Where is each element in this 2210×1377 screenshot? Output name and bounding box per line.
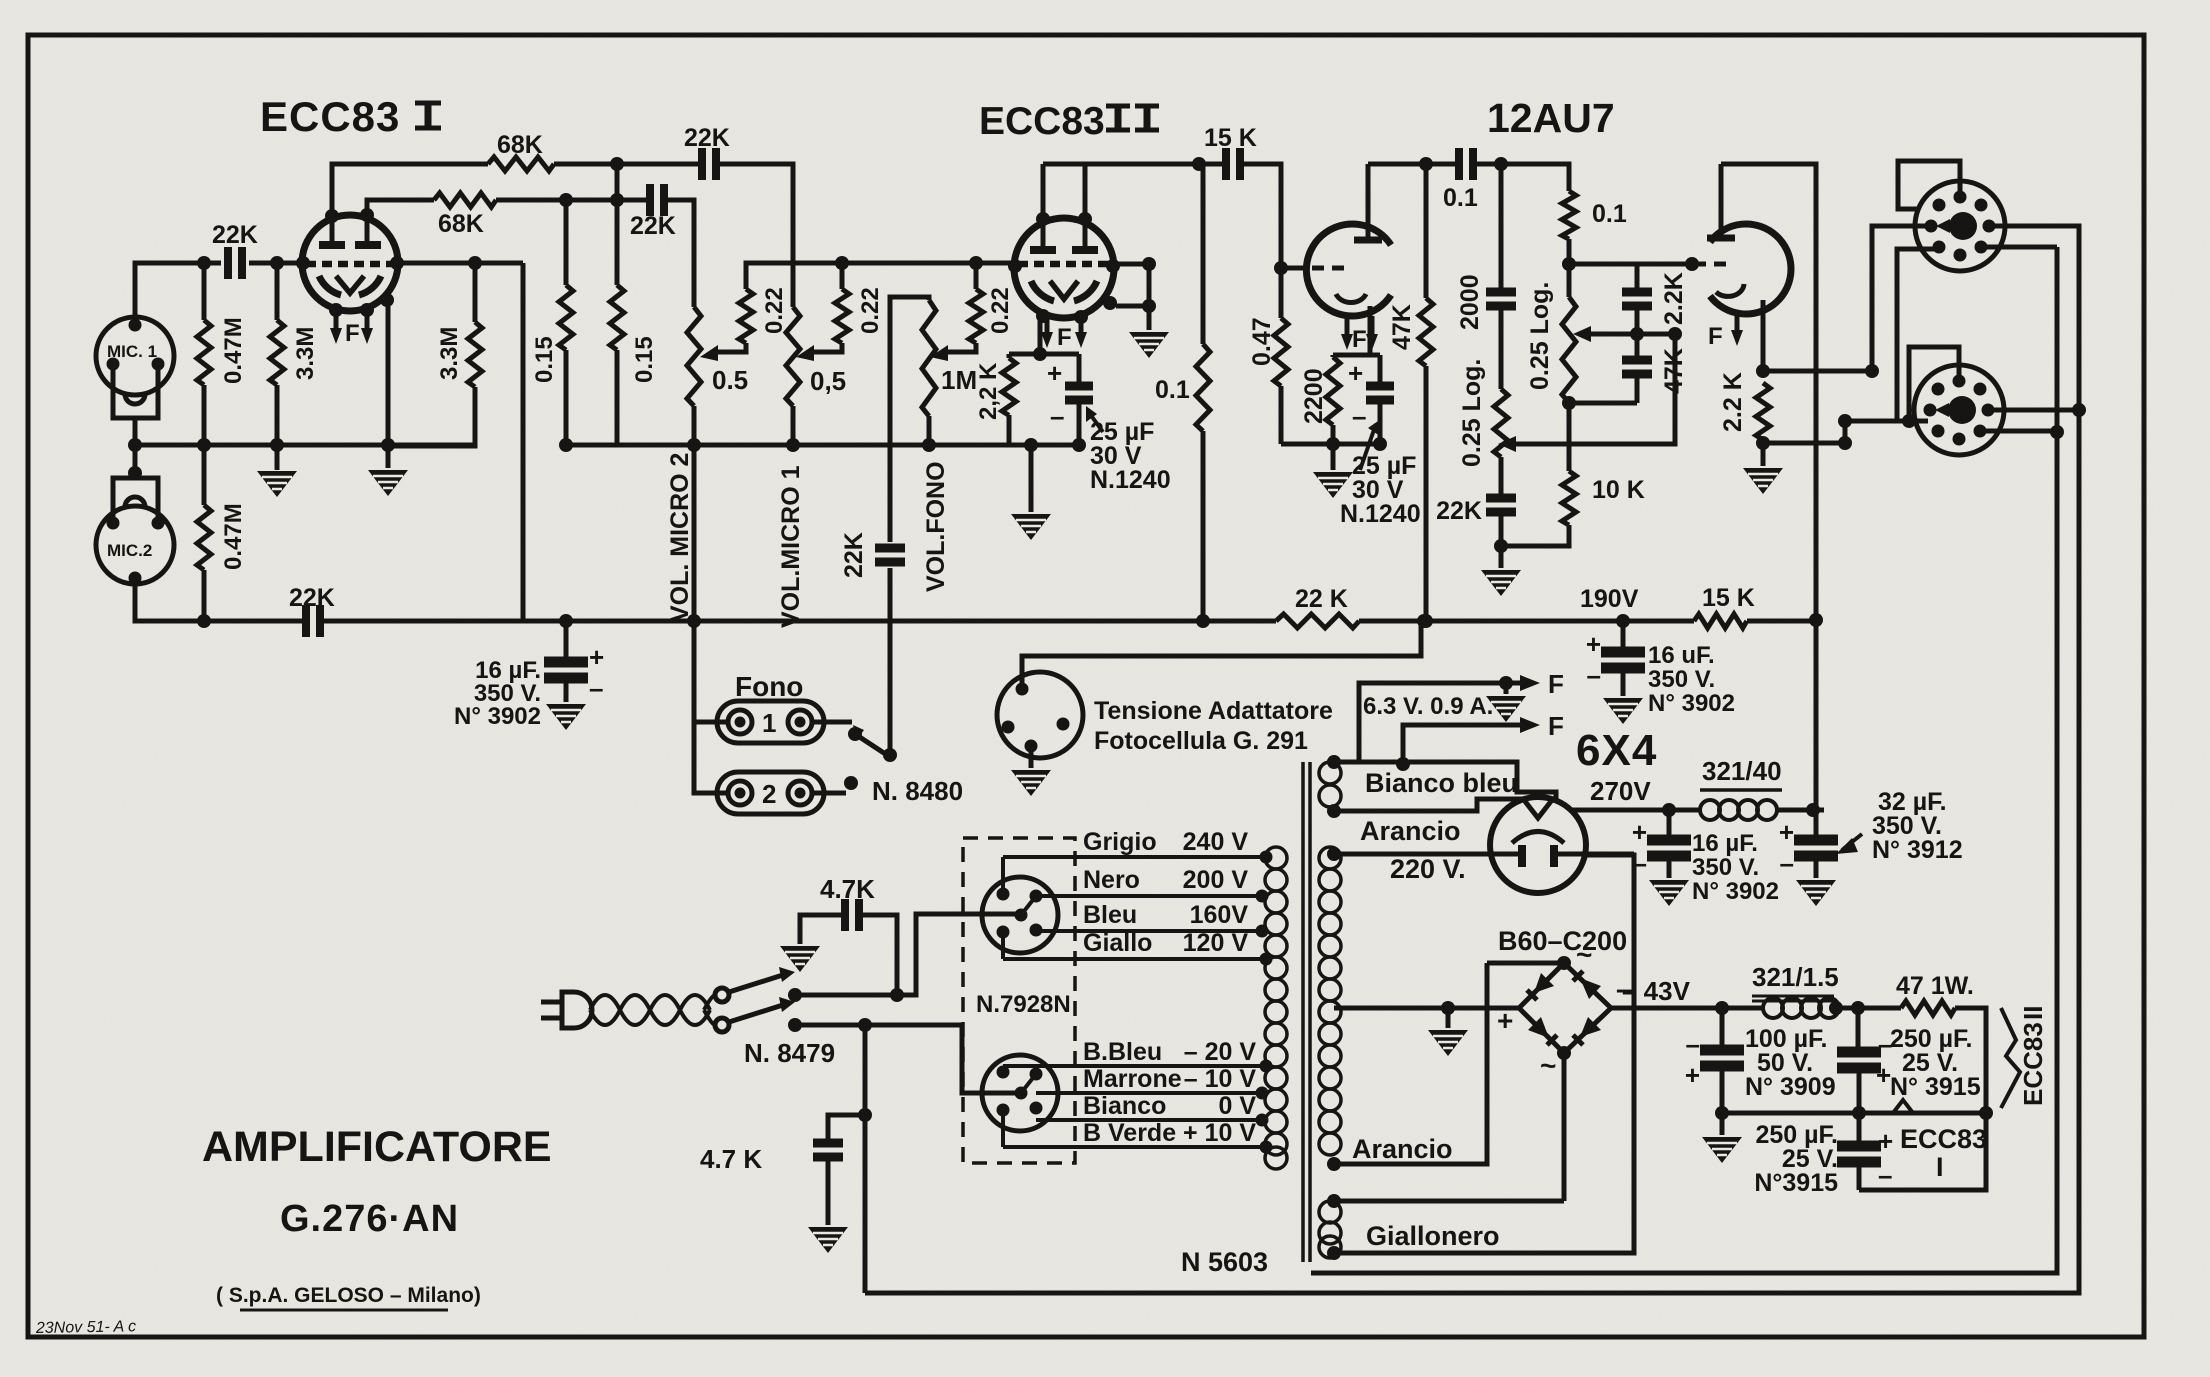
filament arrows F 12AU7a: [1347, 316, 1372, 336]
svg-text:+: +: [1632, 817, 1647, 847]
svg-text:VOL.MICRO 1: VOL.MICRO 1: [777, 465, 805, 628]
potentiometer 0.25 Log (treble): [1562, 297, 1576, 403]
resistor 68K (plate 1): [488, 157, 554, 171]
wire -43V rail: [1611, 1006, 1763, 1011]
capacitor 2.2K: [1635, 264, 1640, 334]
svg-text:240 V: 240 V: [1183, 828, 1249, 856]
svg-text:N° 3909: N° 3909: [1745, 1073, 1836, 1101]
svg-text:– 10 V: – 10 V: [1184, 1065, 1257, 1093]
svg-text:68K: 68K: [497, 131, 543, 159]
svg-text:160V: 160V: [1190, 901, 1249, 929]
svg-text:22K: 22K: [630, 212, 676, 240]
primary taps upper: [1260, 851, 1273, 864]
wire ground-ish bus y445: [566, 443, 1079, 448]
wire common bus y445: [135, 443, 475, 448]
svg-text:N. 8479: N. 8479: [744, 1038, 835, 1068]
svg-text:1: 1: [762, 708, 776, 738]
tube 12AU7 a: [1306, 224, 1391, 316]
resistor 0.15 (decoupling 1): [564, 200, 569, 445]
svg-text:Grigio: Grigio: [1083, 828, 1157, 856]
wire cathode bus: [1281, 442, 1380, 447]
svg-text:0.47M: 0.47M: [220, 503, 247, 570]
svg-text:F: F: [1352, 326, 1367, 353]
resistor 47K plate load: [1424, 164, 1429, 621]
svg-text:190V: 190V: [1580, 585, 1639, 613]
svg-text:0,5: 0,5: [810, 366, 846, 396]
tube 12AU7 b: [1710, 224, 1791, 314]
svg-text:F: F: [1057, 324, 1072, 351]
filament arrow F 12AU7b: [1735, 312, 1740, 332]
svg-text:B Verde: B Verde: [1083, 1119, 1176, 1147]
svg-text:0.22: 0.22: [987, 287, 1014, 334]
wire grid stub: [277, 261, 302, 266]
svg-text:0.47M: 0.47M: [220, 317, 247, 384]
svg-text:Arancio: Arancio: [1352, 1134, 1453, 1164]
svg-text:AMPLIFICATORE: AMPLIFICATORE: [202, 1123, 552, 1171]
svg-text:0.5: 0.5: [712, 365, 748, 395]
wire fono feed with 22K cap: [890, 297, 929, 755]
svg-text:N° 3902: N° 3902: [1648, 690, 1735, 717]
tube 6X4: [1490, 797, 1586, 893]
wire mains top: [795, 914, 1018, 995]
svg-text:0.15: 0.15: [531, 336, 558, 383]
svg-text:– 43V: – 43V: [1622, 976, 1691, 1006]
svg-text:N° 3912: N° 3912: [1872, 836, 1963, 864]
svg-text:Bleu: Bleu: [1083, 901, 1137, 929]
svg-text:ECC83: ECC83: [1900, 1124, 1987, 1154]
svg-text:0.25 Log.: 0.25 Log.: [1458, 359, 1486, 467]
capacitor 250uF (ECC83 I heaters): [1859, 1113, 1986, 1190]
svg-text:16 µF.: 16 µF.: [1692, 830, 1758, 857]
svg-text:N. 8480: N. 8480: [872, 776, 963, 806]
capacitor 22K (input 1): [204, 261, 277, 266]
svg-text:0.22: 0.22: [857, 287, 884, 334]
svg-text:10 K: 10 K: [1592, 476, 1645, 504]
selector socket upper: [982, 877, 1058, 953]
svg-text:4.7K: 4.7K: [820, 874, 875, 904]
wire socket O1 top strap: [1898, 161, 1960, 209]
svg-text:ECC83: ECC83: [260, 93, 400, 140]
svg-text:~: ~: [1576, 939, 1592, 970]
capacitor 47K: [1569, 334, 1637, 403]
svg-text:68K: 68K: [438, 210, 484, 238]
winding HV Arancio: [1319, 847, 1341, 1155]
resistor 22K dropping: [1276, 614, 1359, 628]
svg-text:Tensione Adattatore: Tensione Adattatore: [1094, 697, 1333, 725]
svg-text:Giallo: Giallo: [1083, 929, 1152, 957]
capacitor 4.7K (lower): [828, 1115, 865, 1225]
capacitor 2000: [1499, 164, 1504, 389]
wire MIC2 bottom: [135, 583, 302, 621]
svg-text:2.2K: 2.2K: [1660, 272, 1688, 325]
switch N.8479: [715, 988, 729, 1032]
wiper treble pot: [1573, 326, 1591, 342]
svg-text:–: –: [1050, 401, 1064, 431]
wire 270V output: [1572, 808, 1700, 813]
capacitor 15K coupling: [1199, 164, 1281, 268]
bridge rectifier: [1519, 963, 1611, 1053]
transformer core: [1303, 762, 1310, 1262]
svg-text:N.1240: N.1240: [1340, 500, 1421, 528]
resistor 0.1 (treble series): [1562, 191, 1576, 239]
wire F feed 1: [1359, 683, 1520, 762]
resistor 2.2K cathode: [1009, 316, 1079, 445]
svg-text:N°3915: N°3915: [1754, 1169, 1838, 1197]
winding primary: [1265, 847, 1287, 1169]
svg-text:N° 3902: N° 3902: [1692, 878, 1779, 905]
svg-text:6.3 V. 0.9 A.: 6.3 V. 0.9 A.: [1363, 693, 1493, 720]
mic connector MIC.2: [96, 497, 174, 584]
wire plate line to 0.1: [1501, 164, 1569, 191]
svg-text:F: F: [1548, 669, 1564, 699]
svg-text:+: +: [1779, 817, 1794, 847]
resistor 0.47 grid: [1279, 268, 1284, 444]
svg-text:270V: 270V: [1590, 776, 1651, 806]
capacitor 32uF: [1814, 856, 1819, 878]
wire mains common down: [863, 1025, 868, 1293]
wire socket O2 top strap: [1909, 347, 1959, 421]
svg-text:Fono: Fono: [735, 671, 803, 702]
brace ECC83 II: [2001, 1008, 2020, 1108]
svg-text:2200: 2200: [1300, 368, 1328, 424]
winding 6.3V Bianco bleu: [1319, 762, 1341, 807]
svg-text:N 5603: N 5603: [1181, 1247, 1268, 1277]
resistor 47 1W: [1901, 1001, 1955, 1015]
ground drop from bus: [1029, 445, 1034, 512]
resistor 2.2K cathode follower: [1756, 383, 1770, 440]
svg-text:22K: 22K: [212, 221, 258, 249]
svg-text:– 20 V: – 20 V: [1184, 1038, 1257, 1066]
svg-text:2000: 2000: [1456, 274, 1484, 330]
primary taps lower: [1260, 1060, 1273, 1073]
svg-text:N° 3902: N° 3902: [454, 703, 541, 730]
wire plate2 up: [367, 200, 434, 240]
svg-text:2,2 K: 2,2 K: [975, 362, 1002, 420]
wire grid 12AU7 b: [1569, 262, 1690, 267]
svg-text:–: –: [589, 673, 603, 703]
wire plates to 164 line: [1043, 164, 1199, 218]
svg-text:+: +: [1497, 1005, 1513, 1036]
svg-text:( S.p.A. GELOSO – Milano): ( S.p.A. GELOSO – Milano): [216, 1284, 481, 1307]
svg-text:Nero: Nero: [1083, 866, 1140, 894]
svg-text:F: F: [1708, 323, 1723, 350]
svg-text:~: ~: [1540, 1050, 1556, 1081]
svg-text:–: –: [1352, 401, 1366, 431]
socket G.291: [997, 672, 1083, 758]
svg-text:–: –: [1587, 660, 1601, 690]
svg-text:350 V.: 350 V.: [1648, 666, 1715, 693]
wire MIC1 bracket: [113, 369, 158, 445]
winding 6.3V Giallonero: [1319, 1201, 1341, 1258]
svg-text:22K: 22K: [289, 584, 335, 612]
resistor 3.3M (grid 1): [275, 263, 280, 445]
wire fono switch: [812, 720, 852, 725]
ground below 3.3M: [275, 445, 280, 470]
wire O1 right pins down: [865, 226, 2079, 1293]
wire plate to B+: [1721, 164, 1816, 810]
wire mains bottom: [795, 1025, 1018, 1093]
capacitor 16uF (190V): [1621, 621, 1626, 696]
connector Fono 1: [717, 701, 824, 743]
svg-text:F: F: [1548, 711, 1564, 741]
svg-text:F: F: [345, 320, 360, 347]
svg-text:16 uF.: 16 uF.: [1648, 642, 1715, 669]
svg-text:15 K: 15 K: [1702, 584, 1755, 612]
svg-text:2.2 K: 2.2 K: [1719, 372, 1747, 432]
selector dashed box N.7928N: [963, 838, 1075, 1163]
wire cathode 2 down: [386, 302, 391, 468]
svg-text:N.7928N: N.7928N: [976, 991, 1071, 1018]
svg-text:–: –: [1633, 848, 1647, 878]
tube ECC83 II: [1014, 218, 1114, 318]
tube ECC83 I: [302, 215, 398, 311]
node grid-in: [197, 256, 211, 270]
resistor 0.15 (decoupling 2): [566, 200, 617, 445]
svg-text:22 K: 22 K: [1295, 585, 1348, 613]
svg-text:0.25 Log.: 0.25 Log.: [1526, 282, 1554, 390]
svg-text:3.3M: 3.3M: [436, 327, 463, 380]
svg-text:ECC83: ECC83: [979, 100, 1105, 143]
potentiometer 1M VOL.FONO: [922, 300, 936, 416]
svg-text:+: +: [1878, 1126, 1893, 1156]
socket O2 (output tube 2): [1914, 365, 2004, 455]
wire bias mid rail: [1722, 1111, 1986, 1116]
capacitor 22K (feedback bottom): [306, 605, 320, 637]
svg-text:22K: 22K: [684, 124, 730, 152]
mains plug: [541, 1002, 562, 1018]
potentiometer 0.25 Log (bass): [1494, 389, 1508, 457]
svg-text:15 K: 15 K: [1204, 124, 1257, 152]
svg-text:0.1: 0.1: [1443, 184, 1478, 212]
wire O1 to O2 grids: [1897, 249, 1934, 421]
svg-text:MIC. 1: MIC. 1: [107, 342, 157, 361]
svg-text:I: I: [1936, 1152, 1944, 1182]
svg-text:22K: 22K: [1436, 497, 1482, 525]
wire bias to O2: [1845, 421, 1928, 443]
svg-text:ECC83 II: ECC83 II: [2018, 1006, 2048, 1106]
svg-text:VOL.FONO: VOL.FONO: [922, 461, 950, 592]
svg-text:Marrone: Marrone: [1083, 1065, 1182, 1093]
wire fono grounds: [694, 621, 728, 793]
wire grid2/cathode2 to ground: [1114, 264, 1149, 330]
connector Fono 2: [717, 772, 824, 814]
svg-text:–: –: [1878, 1160, 1892, 1190]
capacitor 100uF bias: [1720, 1008, 1725, 1113]
svg-text:N.1240: N.1240: [1090, 466, 1171, 494]
resistor 0.47M (mic1): [202, 263, 207, 445]
mic connector MIC.1: [96, 317, 174, 404]
capacitor 22K: [1499, 457, 1504, 546]
svg-text:+: +: [1586, 629, 1601, 659]
svg-text:Bianco bleu: Bianco bleu: [1365, 768, 1518, 798]
svg-text:Fotocellula G. 291: Fotocellula G. 291: [1094, 727, 1308, 755]
twisted cord: [590, 995, 710, 1025]
filament arrows F tube1: [336, 310, 367, 330]
wire cathode out: [1763, 300, 1872, 371]
svg-text:N° 3915: N° 3915: [1890, 1073, 1981, 1101]
svg-text:321/40: 321/40: [1702, 756, 1782, 786]
svg-text:23Nov 51- A c: 23Nov 51- A c: [35, 1318, 136, 1337]
svg-text:220 V.: 220 V.: [1390, 854, 1466, 884]
svg-text:1M: 1M: [941, 365, 977, 395]
svg-text:+ 10 V: + 10 V: [1183, 1119, 1256, 1147]
wire grid bus ECC83 II: [746, 263, 1014, 289]
resistor 10K: [1567, 403, 1572, 471]
resistor 68K (plate 2): [434, 193, 496, 207]
resistor 0.22 (ch A): [739, 289, 753, 343]
capacitor 25uF cathode: [1077, 354, 1082, 445]
svg-text:Bianco: Bianco: [1083, 1092, 1166, 1120]
wiper bass pot wire: [1516, 334, 1675, 444]
capacitor 22K (to micro1 pot): [650, 184, 664, 216]
capacitor 25uF cathode 12AU7: [1378, 355, 1383, 444]
svg-text:+: +: [1348, 358, 1363, 388]
capacitor 22K (to grid bus): [617, 164, 793, 307]
svg-text:+: +: [589, 642, 604, 672]
svg-text:0.1: 0.1: [1155, 376, 1190, 404]
wire plate1 up: [332, 164, 488, 240]
wire MIC2 bracket: [113, 445, 158, 523]
filament arrows F tube2: [1047, 314, 1081, 334]
wire MIC1 top to grid line: [135, 263, 204, 320]
wire B+ bus y621: [566, 619, 1276, 624]
svg-text:–: –: [1686, 1029, 1700, 1059]
resistor 0.22 (ch B): [840, 263, 845, 289]
svg-text:+: +: [1685, 1060, 1700, 1090]
svg-text:350 V.: 350 V.: [1692, 854, 1759, 881]
svg-text:+: +: [1047, 358, 1062, 388]
svg-text:0 V: 0 V: [1218, 1092, 1256, 1120]
svg-text:Arancio: Arancio: [1360, 816, 1461, 846]
capacitor 0.1 coupling: [1368, 162, 1501, 167]
svg-text:321/1.5: 321/1.5: [1752, 962, 1839, 992]
resistor 15K dropping: [1694, 614, 1747, 628]
svg-text:0.15: 0.15: [631, 336, 658, 383]
svg-text:2: 2: [762, 779, 776, 809]
resistor 0.47M (mic2): [202, 445, 207, 621]
svg-text:0.47: 0.47: [1248, 317, 1276, 366]
svg-text:4.7 K: 4.7 K: [700, 1144, 762, 1174]
svg-text:22K: 22K: [840, 532, 868, 578]
capacitor 16uF (270V): [1667, 810, 1672, 878]
svg-text:47 1W.: 47 1W.: [1896, 972, 1974, 1000]
svg-text:B60–C200: B60–C200: [1498, 926, 1627, 956]
resistor 3.3M (grid 2): [388, 263, 475, 446]
svg-text:200 V: 200 V: [1183, 866, 1249, 894]
wire F feed 2: [1403, 725, 1520, 764]
svg-text:MIC.2: MIC.2: [107, 541, 152, 560]
resistor 0.1 plate load: [1201, 164, 1206, 621]
svg-text:3.3M: 3.3M: [292, 327, 319, 380]
resistor 2200 cathode: [1333, 306, 1380, 444]
svg-text:–: –: [1780, 848, 1794, 878]
svg-text:6X4: 6X4: [1576, 726, 1657, 775]
svg-text:Giallonero: Giallonero: [1366, 1221, 1500, 1251]
svg-text:+: +: [1876, 1060, 1891, 1090]
svg-text:0.1: 0.1: [1592, 200, 1627, 228]
potentiometer 0.5 VOL.MICRO 1: [786, 307, 800, 406]
resistor 0.22 (fono): [974, 263, 979, 289]
svg-text:B.Bleu: B.Bleu: [1083, 1038, 1162, 1066]
wire bridge AC feeds: [1487, 963, 1564, 1201]
svg-text:47K: 47K: [1388, 304, 1416, 350]
capacitor 4.7K (upper): [800, 915, 897, 995]
selector socket lower: [982, 1055, 1058, 1131]
socket O1 (output tube 1): [1915, 181, 2005, 271]
svg-text:12AU7: 12AU7: [1487, 95, 1615, 141]
capacitor 16uF (first stage decoupling): [564, 621, 569, 702]
potentiometer 0.5 VOL.MICRO 2: [687, 307, 701, 406]
wire drive a to O1: [1872, 226, 1929, 371]
svg-text:120 V: 120 V: [1183, 929, 1249, 957]
wire feedback up to grid line: [324, 263, 566, 621]
svg-text:G.276·AN: G.276·AN: [280, 1198, 459, 1240]
capacitor 250uF (ECC83 II heaters): [1858, 1008, 1859, 1113]
svg-text:VOL. MICRO 2: VOL. MICRO 2: [666, 453, 694, 622]
svg-text:0.22: 0.22: [761, 287, 788, 334]
